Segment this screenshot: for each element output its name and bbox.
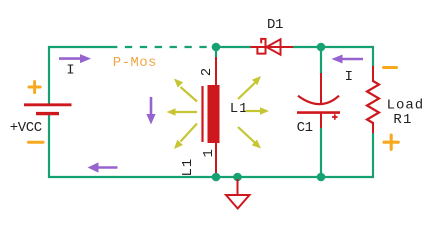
field arrow down-right [238, 127, 261, 149]
svg-text:I: I [66, 63, 74, 79]
diode D1 red wire [251, 46, 294, 48]
wire top-right [321, 46, 373, 48]
battery BT +VCC plates [24, 105, 72, 114]
svg-text:I: I [345, 69, 353, 85]
inductor L1 core line [201, 86, 203, 142]
field arrow down-left [174, 124, 197, 150]
wire bottom [49, 176, 373, 178]
wire top center to diode [216, 46, 252, 48]
current arrow I top-left [59, 54, 91, 63]
current arrow purple bottom-left [88, 162, 118, 172]
wire resistor branch green top [372, 46, 374, 67]
wire cap branch green stub top [320, 47, 322, 74]
ground stub [237, 179, 239, 195]
wire left branch lower [48, 115, 50, 179]
field arrow up-right [238, 76, 261, 99]
junction dot top center [212, 43, 221, 52]
field arrow right [246, 107, 270, 115]
capacitor C1 straight plate [297, 111, 340, 114]
wire inductor pin2 red stub [215, 57, 217, 86]
wire diode to cap junction [293, 46, 322, 48]
current arrow I top-right [332, 55, 364, 64]
field arrow up-left [174, 79, 197, 102]
flux arrow purple down [146, 97, 155, 125]
ground triangle [226, 195, 250, 209]
battery minus mark [29, 141, 44, 144]
junction dot top cap [317, 43, 326, 52]
junction dot bottom inductor [212, 173, 221, 182]
svg-text:P-Mos: P-Mos [113, 55, 157, 71]
svg-text:C1: C1 [297, 120, 313, 136]
svg-text:2: 2 [199, 68, 215, 76]
inductor L1 body bar [208, 85, 220, 143]
junction dot bottom ground [233, 173, 242, 182]
wire cap red stub top [320, 73, 322, 103]
battery plus mark [29, 81, 40, 92]
svg-text:+VCC: +VCC [10, 120, 42, 136]
plus mark bottom-right [384, 135, 398, 149]
wire top-left solid [49, 46, 110, 48]
minus mark top-right [384, 66, 397, 69]
capacitor C1 curved plate [298, 96, 339, 104]
junction dot bottom cap [317, 173, 326, 182]
wire resistor branch green bottom [372, 133, 374, 178]
wire inductor pin1 red stub [215, 142, 217, 176]
resistor R1 zigzag [367, 81, 379, 123]
diode D1 triangle [267, 39, 281, 54]
wire cap branch green stub bottom [320, 128, 322, 178]
diode D1 schottky cathode [257, 38, 265, 55]
wire top dashed (P-Mos placeholder) [110, 46, 216, 48]
field arrow left [167, 108, 198, 116]
svg-text:1: 1 [201, 149, 217, 157]
capacitor C1 polarity plus [332, 114, 338, 120]
wire cap red stub bottom [320, 113, 322, 129]
svg-text:L1: L1 [180, 158, 196, 177]
wire left branch upper [48, 46, 50, 104]
wire resistor red stub top [372, 66, 374, 82]
svg-text:R1: R1 [393, 112, 412, 128]
svg-text:L1: L1 [230, 101, 249, 117]
wire center branch green stub [215, 47, 217, 58]
svg-text:D1: D1 [267, 17, 283, 33]
wire resistor red stub bottom [372, 122, 374, 134]
